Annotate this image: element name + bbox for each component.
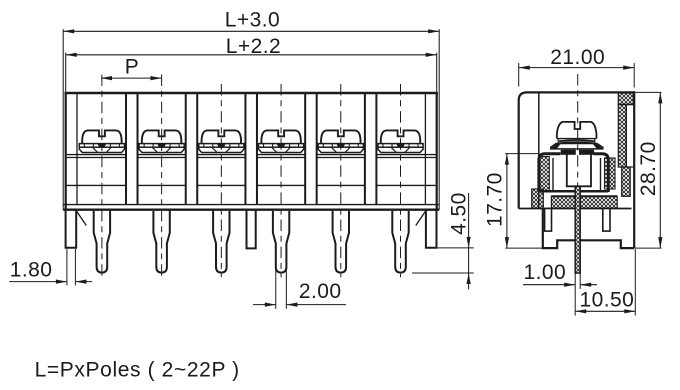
dimension 1.80 (leg width)	[66, 249, 68, 285]
side view: right wall hatch (lower column)	[618, 166, 633, 168]
dimension 10.50 (pin offset)	[574, 289, 576, 316]
side view: clamp hatch columns	[540, 157, 550, 192]
dimension L+2.2	[66, 54, 437, 56]
pole 1 screw head	[82, 130, 122, 143]
pole 5 solder pin	[333, 211, 349, 273]
pole 1 clamp plate	[79, 147, 124, 152]
svg-text:1.00: 1.00	[524, 261, 567, 284]
side view: clamp cage right wall	[594, 154, 609, 192]
pole 3 washer band	[199, 144, 244, 148]
side view: solder pin (sectioned)	[575, 187, 580, 274]
pole 4 clamp plate	[259, 147, 304, 152]
front view: barrier walls between poles	[125, 94, 127, 205]
pole 1 solder pin	[94, 211, 110, 273]
pole 4 screw head	[261, 130, 301, 143]
front view: right mounting leg	[426, 210, 437, 248]
svg-text:4.50: 4.50	[447, 192, 470, 235]
dimension 1.00 (pin thickness)	[574, 274, 576, 289]
side view: right wall hatch (upper block)	[618, 93, 633, 105]
front view: left leg chamfer	[77, 212, 87, 226]
dimension 21.00 (body depth)	[518, 63, 520, 87]
pole 2 washer band	[139, 144, 184, 148]
pole 2 solder pin	[153, 211, 169, 273]
side view: screw neck thread lines	[559, 140, 594, 141]
pole 4 washer band	[258, 144, 303, 148]
side view: body outline with rounded corner	[519, 92, 635, 208]
pole 2 screw head	[142, 130, 182, 143]
side view: clamp cage bottom edge	[539, 190, 608, 193]
svg-text:10.50: 10.50	[580, 289, 635, 312]
front view: right leg chamfer	[416, 212, 426, 226]
pole 3 screw head	[202, 130, 242, 143]
side view: inner front-wall line	[538, 94, 540, 209]
side view: body bottom face	[519, 208, 632, 210]
front view: middle mounting leg	[247, 210, 256, 249]
svg-text:P: P	[125, 56, 139, 79]
pole 6 centerline	[400, 84, 402, 277]
side view: rear mounting leg	[603, 209, 610, 232]
side view: front mounting leg	[545, 209, 552, 232]
pole 5 clamp plate	[318, 147, 363, 152]
pole 3 clamp plate	[199, 147, 244, 152]
side view: bottom insulator plate hatches	[532, 189, 544, 208]
pole 2 clamp plate	[139, 147, 184, 152]
dimension 4.50 (pin length below leg)	[438, 247, 474, 249]
svg-text:21.00: 21.00	[550, 46, 605, 69]
side view: clamp cage left wall	[539, 154, 561, 192]
side view: wire channel	[567, 152, 591, 186]
pole 6 clamp plate	[378, 147, 423, 152]
pole 6 washer band	[378, 144, 423, 148]
pole 3 solder pin	[213, 211, 229, 273]
svg-text:L+3.0: L+3.0	[225, 8, 280, 31]
side view: clamp top flanges (sectioned solid)	[561, 150, 575, 154]
side view: bottom skirt profile	[543, 209, 634, 249]
dimension 17.70 (clamp to leg bottom)	[505, 153, 539, 155]
pole 5 washer band	[318, 144, 363, 148]
side view: centerline	[577, 74, 579, 196]
dimension L+3.0	[63, 30, 439, 32]
svg-text:1.80: 1.80	[10, 259, 53, 282]
front view: body bottom lines	[63, 204, 439, 206]
side view: insulator plate top edge	[551, 195, 617, 197]
pole 5 centerline	[340, 84, 342, 277]
svg-text:17.70: 17.70	[483, 172, 506, 227]
pole 2 centerline	[161, 75, 163, 278]
pole 4 solder pin	[273, 211, 289, 273]
pole 6 solder pin	[392, 211, 408, 273]
svg-text:L+2.2: L+2.2	[226, 35, 281, 58]
pole 4 centerline	[280, 84, 282, 277]
dimension 2.00 (pin width)	[275, 268, 277, 309]
dimension 28.70 (overall height)	[635, 91, 661, 93]
side view: screw head	[557, 122, 597, 139]
front view: terminal block body outline	[65, 92, 438, 94]
pole 1 washer band	[79, 144, 124, 148]
front view: left mounting leg	[66, 210, 77, 248]
pole 6 screw head	[381, 130, 421, 143]
pole 3 centerline	[220, 84, 222, 277]
dimension P	[101, 77, 162, 79]
side view: right wall inner slot lines	[626, 103, 633, 105]
svg-text:28.70: 28.70	[637, 141, 660, 196]
side view: right wall hatch (narrow column)	[618, 104, 626, 167]
svg-text:2.00: 2.00	[299, 280, 342, 303]
svg-text:L=PxPoles ( 2~22P ): L=PxPoles ( 2~22P )	[35, 359, 240, 382]
pole 1 centerline	[101, 75, 103, 278]
pole 5 screw head	[321, 130, 361, 143]
side view: clamp cage inner verticals	[552, 158, 554, 191]
front view: internal horizontal body lines	[67, 154, 126, 156]
side view: screw washer flange	[551, 144, 603, 149]
